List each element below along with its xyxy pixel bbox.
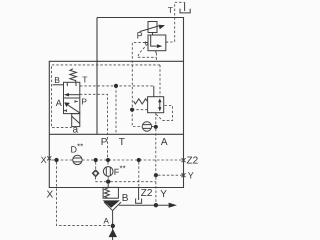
svg-text:P: P [101, 137, 108, 148]
svg-text:T: T [82, 74, 87, 84]
svg-text:A: A [104, 216, 110, 225]
svg-text:A: A [161, 137, 168, 148]
svg-text:Y: Y [160, 189, 167, 200]
svg-text:Z2: Z2 [187, 156, 199, 167]
svg-text:Y: Y [188, 170, 194, 180]
svg-text:P: P [137, 31, 143, 41]
svg-text:P: P [81, 96, 87, 106]
svg-text:a: a [73, 125, 79, 136]
svg-text:B: B [122, 193, 129, 204]
svg-text:X: X [47, 190, 54, 201]
svg-text:T: T [168, 5, 173, 15]
svg-text:Z2: Z2 [141, 188, 153, 199]
svg-text:B: B [54, 75, 60, 85]
svg-text:**: ** [77, 142, 83, 151]
svg-text:T: T [119, 137, 125, 148]
svg-text:A: A [56, 98, 62, 108]
svg-text:**: ** [120, 164, 126, 173]
svg-text:X: X [41, 155, 47, 165]
